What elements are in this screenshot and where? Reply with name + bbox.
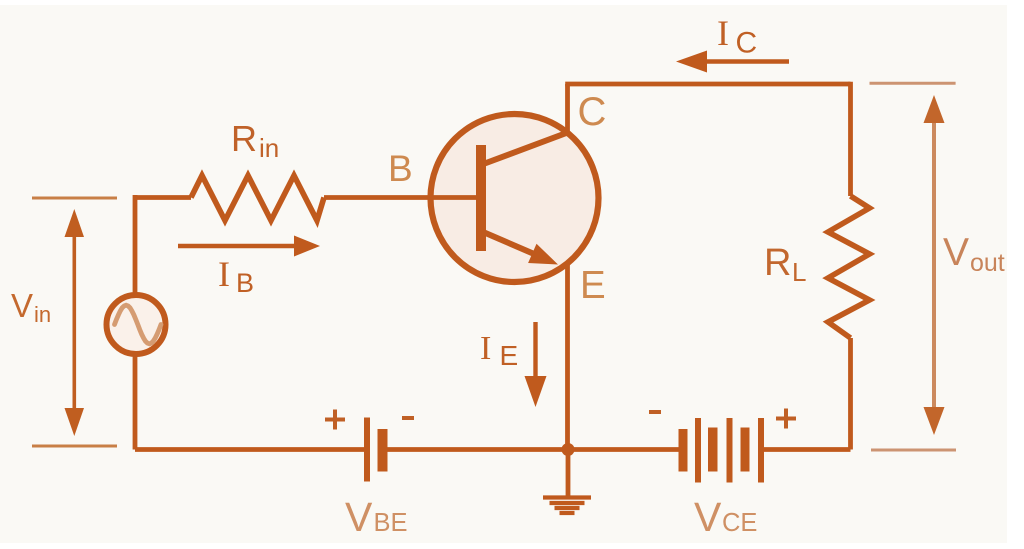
svg-text:L: L: [792, 257, 806, 287]
wire: right vertical lower: [848, 338, 853, 450]
measurement bar Vout top: [870, 82, 956, 85]
label VCE: [694, 494, 757, 540]
svg-text:V: V: [345, 494, 373, 540]
current arrow IE: [525, 322, 547, 407]
label IC: [717, 13, 757, 60]
resistor Rin: [191, 176, 324, 221]
measurement arrow Vin: [65, 209, 85, 436]
wire: base wire inside transistor: [429, 195, 478, 200]
junction dot: [562, 443, 575, 456]
node C label: [578, 90, 607, 134]
measurement bar Vin bottom: [32, 445, 117, 448]
transistor Q1 collector stroke: [482, 132, 569, 165]
battery VCE minus sign: [649, 410, 661, 414]
svg-text:in: in: [34, 302, 51, 327]
svg-text:B: B: [388, 148, 413, 189]
ac source Vin: [107, 295, 166, 354]
svg-text:V: V: [11, 287, 33, 324]
wire: base wire right segment: [324, 195, 478, 200]
measurement bar Vout bottom: [871, 449, 956, 452]
battery VBE: [364, 418, 388, 482]
transistor Q1 body: [431, 114, 599, 282]
battery VCE: [679, 418, 765, 483]
wire: top horizontal: [565, 82, 850, 87]
battery VCE plus sign: [776, 409, 796, 429]
wire: bottom left segment: [135, 447, 364, 452]
wire: ground stub: [566, 450, 571, 497]
ground: [543, 498, 591, 514]
resistor RL: [828, 196, 870, 338]
label VBE: [345, 494, 408, 540]
battery VBE plus sign: [325, 410, 345, 430]
label IE: [480, 330, 518, 371]
wire: collector vertical: [565, 84, 570, 134]
svg-text:E: E: [500, 340, 519, 371]
node B label: [388, 148, 413, 189]
svg-text:B: B: [236, 268, 254, 298]
label RL: [764, 242, 806, 287]
svg-text:C: C: [578, 90, 607, 134]
svg-text:C: C: [736, 27, 758, 60]
label Rin: [231, 118, 279, 163]
svg-text:out: out: [970, 249, 1005, 277]
wire: right vertical upper: [848, 82, 853, 196]
svg-text:I: I: [480, 330, 491, 367]
svg-text:R: R: [764, 242, 791, 284]
battery VBE minus sign: [402, 416, 414, 420]
svg-text:R: R: [231, 118, 257, 159]
label IB: [218, 254, 254, 298]
measurement arrow Vout: [924, 95, 945, 435]
svg-text:E: E: [580, 264, 606, 307]
wire: bottom right segment: [764, 447, 851, 452]
node E label: [580, 264, 606, 307]
svg-text:I: I: [218, 254, 230, 294]
transistor Q1 base bar: [476, 145, 486, 251]
label Vout: [943, 231, 1005, 277]
svg-text:in: in: [259, 133, 279, 163]
wire: left vertical upper: [133, 195, 138, 294]
svg-text:BE: BE: [374, 509, 408, 537]
wire: bottom middle segment: [388, 447, 680, 452]
measurement bar Vin top: [32, 197, 117, 200]
transistor Q1 emitter stroke with arrowhead: [482, 232, 558, 265]
label Vin: [11, 287, 51, 327]
wire: left vertical lower: [133, 355, 138, 450]
current arrow IC: [676, 51, 789, 73]
current arrow IB: [178, 236, 320, 257]
wire: base wire left segment: [135, 195, 191, 200]
svg-text:V: V: [943, 231, 969, 274]
wire: emitter vertical: [565, 265, 570, 450]
svg-text:V: V: [694, 494, 722, 540]
svg-text:I: I: [717, 13, 729, 53]
svg-text:CE: CE: [722, 509, 757, 537]
